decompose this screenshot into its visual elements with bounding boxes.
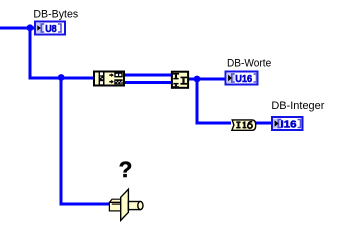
wire vertical drop then right to Decimate input — [29, 28, 94, 78]
function Join Numbers — [172, 72, 188, 88]
svg-text:U16: U16 — [235, 74, 252, 85]
node junction at DB-Bytes branch — [27, 24, 34, 31]
conversion node I16 (To Word Integer) — [232, 120, 256, 130]
terminal DB-Worte [U16] — [226, 72, 258, 85]
wire Decimate bottom output to Join input — [125, 81, 171, 84]
svg-text:DB-Integer: DB-Integer — [271, 100, 324, 112]
wire vertical drop then right to plug icon — [60, 78, 112, 204]
label DB-Worte — [227, 58, 271, 70]
terminal DB-Bytes [U8] — [35, 22, 65, 35]
wire vertical drop then right to I16 conversion — [196, 79, 232, 123]
wire from left edge to DB-Bytes terminal — [0, 27, 35, 30]
label DB-Integer — [271, 100, 324, 112]
label DB-Bytes — [33, 8, 78, 20]
svg-text:DB-Worte: DB-Worte — [227, 58, 271, 70]
question mark annotation — [119, 157, 133, 182]
svg-text:DB-Bytes: DB-Bytes — [33, 8, 78, 20]
svg-text:I16: I16 — [281, 119, 297, 130]
terminal DB-Integer [I16] — [272, 117, 303, 130]
svg-text:U8: U8 — [45, 24, 57, 35]
wire I16 conversion to DB-Integer terminal — [255, 122, 271, 125]
plug icon (unknown connector) — [109, 189, 143, 220]
wire Join output to DB-Worte terminal — [188, 78, 225, 81]
function Decimate 1D Array — [94, 72, 124, 86]
node junction at lower branch — [58, 74, 65, 81]
wire Decimate top output to Join input — [125, 74, 171, 77]
node junction at DB-Worte branch — [194, 76, 201, 83]
svg-text:?: ? — [119, 157, 133, 182]
